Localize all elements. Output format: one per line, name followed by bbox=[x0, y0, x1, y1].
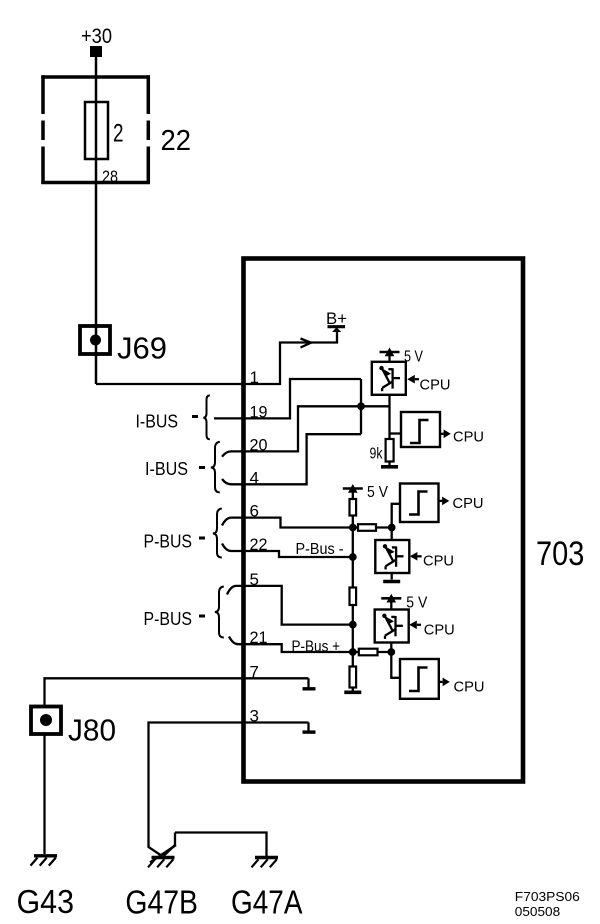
wire node A to R2 to node B bbox=[353, 526, 392, 528]
ground below U2 bbox=[383, 573, 400, 582]
svg-text:9k: 9k bbox=[370, 446, 384, 463]
wire pin 6 bbox=[222, 518, 353, 528]
wire node B down to U2 bbox=[391, 528, 393, 541]
ground below 9k bbox=[381, 462, 398, 467]
terminal B+ bbox=[328, 327, 346, 332]
arrow CPU into U2 bbox=[410, 552, 422, 561]
dash group 1 bbox=[192, 415, 198, 418]
junction I-bus bbox=[357, 402, 365, 410]
splice tick at G47B bbox=[150, 845, 176, 863]
svg-text:5 V: 5 V bbox=[367, 484, 388, 501]
wire pin 21 bbox=[229, 637, 353, 653]
wire pin 19 bbox=[214, 379, 361, 418]
connector J80 bbox=[31, 707, 61, 735]
arrow CPU into U3 bbox=[409, 621, 421, 630]
transceiver U1 bbox=[372, 362, 406, 395]
svg-text:F703PS06: F703PS06 bbox=[515, 889, 580, 904]
wire stub to schmitt 1 bbox=[390, 432, 402, 434]
wire pin 20 bbox=[222, 406, 390, 456]
wire node B up to schmitt 2 bbox=[392, 504, 400, 528]
fuse holder box 22 dashed border bbox=[41, 75, 150, 184]
brace group 4 bbox=[215, 587, 224, 638]
junction node F bbox=[387, 648, 395, 656]
dash group 3 bbox=[199, 537, 205, 540]
svg-text:CPU: CPU bbox=[454, 680, 485, 696]
svg-text:J80: J80 bbox=[68, 713, 116, 748]
brace group 2 bbox=[211, 442, 220, 493]
arrow CPU into U1 bbox=[407, 375, 419, 384]
arrow chevron on B+ feed bbox=[301, 339, 312, 348]
resistor R5 vertical bbox=[350, 667, 357, 688]
wire pin 7 to J80 bbox=[45, 678, 309, 706]
brace group 1 bbox=[203, 395, 210, 439]
supply 5V arrow 2 bbox=[343, 484, 363, 499]
wire left P-bus chain lower bbox=[352, 605, 354, 667]
svg-text:1: 1 bbox=[250, 368, 259, 387]
junction node D bbox=[349, 621, 357, 629]
ground G47A bbox=[252, 858, 279, 868]
wire J80 to G43 bbox=[43, 734, 45, 854]
svg-text:703: 703 bbox=[536, 535, 584, 573]
wire U1 bottom to 9k bbox=[388, 395, 390, 439]
resistor R1 vertical bbox=[350, 499, 357, 516]
resistor R3 vertical bbox=[350, 588, 357, 606]
schmitt trigger A1 bbox=[401, 412, 440, 447]
svg-text:P-Bus -: P-Bus - bbox=[296, 541, 344, 558]
dash group 4 bbox=[199, 615, 205, 618]
transceiver U3 bbox=[375, 610, 409, 643]
svg-text:2: 2 bbox=[113, 120, 124, 148]
wire J69 to pin 1 and B+ bbox=[96, 330, 337, 384]
svg-text:G43: G43 bbox=[17, 883, 75, 920]
ground below R5 bbox=[344, 688, 361, 693]
svg-text:CPU: CPU bbox=[453, 496, 484, 512]
svg-text:28: 28 bbox=[102, 168, 118, 186]
wire node F down to schmitt 3 bbox=[391, 652, 400, 678]
wire +30 feed down to J69 bbox=[95, 57, 98, 384]
resistor 9k bbox=[386, 439, 394, 462]
junction node A bbox=[349, 524, 357, 532]
svg-text:CPU: CPU bbox=[424, 623, 455, 639]
arrow CPU out of A1 bbox=[440, 430, 451, 439]
junction node B bbox=[388, 524, 396, 532]
pin 3 wire end terminal bbox=[303, 723, 316, 733]
wire pin 22 bbox=[222, 544, 353, 558]
wire left P-bus chain upper bbox=[352, 516, 354, 588]
resistor R4 horizontal bbox=[359, 649, 378, 656]
svg-text:P-BUS: P-BUS bbox=[144, 609, 193, 629]
junction node E bbox=[349, 648, 357, 656]
svg-text:050508: 050508 bbox=[515, 904, 560, 919]
wire I-bus common vertical bbox=[360, 379, 362, 434]
svg-text:I-BUS: I-BUS bbox=[145, 459, 188, 479]
svg-text:J69: J69 bbox=[117, 331, 167, 366]
junction node C bbox=[349, 553, 357, 561]
supply 5V arrow 1 bbox=[380, 348, 400, 362]
wire U3 bottom to node F bbox=[390, 643, 392, 653]
svg-text:P-Bus +: P-Bus + bbox=[292, 639, 341, 656]
connector J69 bbox=[80, 326, 110, 354]
pin 7 wire end terminal bbox=[303, 678, 316, 689]
svg-text:+30: +30 bbox=[81, 25, 112, 48]
brace group 3 bbox=[213, 509, 222, 558]
supply 5V arrow 3 bbox=[381, 594, 401, 610]
schmitt trigger A3 bbox=[400, 659, 439, 699]
wire pin 5 bbox=[227, 586, 353, 625]
schmitt trigger A2 bbox=[400, 484, 439, 523]
svg-text:P-BUS: P-BUS bbox=[144, 532, 193, 552]
transceiver U2 bbox=[375, 540, 409, 573]
svg-text:B+: B+ bbox=[326, 309, 347, 328]
arrow CPU out of A2 bbox=[439, 497, 450, 506]
svg-text:CPU: CPU bbox=[423, 554, 454, 570]
svg-text:G47A: G47A bbox=[231, 884, 303, 921]
svg-text:CPU: CPU bbox=[453, 430, 484, 446]
ground G47B bbox=[148, 858, 175, 868]
svg-text:22: 22 bbox=[161, 125, 192, 157]
wire pin 4 bbox=[222, 434, 361, 484]
dash group 2 bbox=[199, 466, 205, 469]
terminal +30 square bbox=[90, 46, 102, 57]
wire branch G47A bbox=[164, 833, 267, 857]
svg-text:I-BUS: I-BUS bbox=[136, 412, 179, 432]
svg-text:G47B: G47B bbox=[125, 884, 198, 921]
wire pin 3 to G47B bbox=[149, 723, 309, 857]
ground G43 bbox=[31, 856, 58, 866]
fuse 2 element bbox=[85, 102, 108, 159]
resistor R2 horizontal bbox=[358, 524, 376, 531]
wire node E to R4 to node F bbox=[353, 651, 392, 653]
arrow CPU out of A3 bbox=[439, 678, 450, 687]
ECU box 703 bbox=[244, 259, 524, 782]
svg-text:CPU: CPU bbox=[420, 378, 451, 394]
